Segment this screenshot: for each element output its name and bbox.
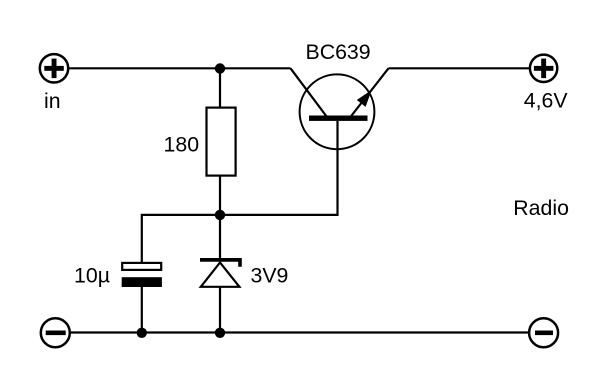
wire capacitor bottom lead xyxy=(141,286,143,333)
wire base lead: transistor base down then left to node xyxy=(219,121,338,215)
wire node to capacitor branch xyxy=(142,215,221,264)
svg-text:Radio: Radio xyxy=(513,196,569,220)
junction node base/zener xyxy=(215,210,225,220)
transistor collector diagonal xyxy=(291,68,327,116)
wire zener bottom lead xyxy=(219,287,221,333)
wire top rail left: input terminal to collector corner xyxy=(69,67,291,69)
junction node capacitor bottom xyxy=(137,328,147,338)
svg-text:BC639: BC639 xyxy=(306,40,371,64)
zener diode D 3V9 cathode bar with hook xyxy=(200,258,242,267)
terminal - bottom right xyxy=(529,318,558,347)
svg-text:in: in xyxy=(44,89,61,113)
capacitor C 10µ bottom plate xyxy=(122,277,162,287)
transistor Q1 BC639 circle xyxy=(300,74,375,149)
junction node zener bottom xyxy=(215,328,225,338)
svg-text:4,6V: 4,6V xyxy=(524,88,569,112)
wire resistor top lead xyxy=(219,68,221,108)
capacitor C 10µ top plate xyxy=(122,263,161,270)
zener diode D 3V9 triangle xyxy=(201,263,240,287)
wire top rail right: emitter corner to output terminal xyxy=(389,67,530,69)
terminal - bottom left xyxy=(41,318,70,347)
resistor R 180 body xyxy=(207,108,236,176)
transistor base bar xyxy=(309,116,368,121)
svg-text:3V9: 3V9 xyxy=(251,264,289,288)
transistor emitter diagonal xyxy=(351,68,389,116)
wire resistor bottom lead to node xyxy=(219,175,221,216)
wire zener top lead xyxy=(219,215,221,259)
svg-text:10µ: 10µ xyxy=(74,263,110,287)
svg-text:180: 180 xyxy=(164,133,200,157)
junction node top rail xyxy=(215,63,225,73)
wire bottom rail xyxy=(71,331,529,333)
terminal + input (in) xyxy=(40,54,68,82)
transistor emitter arrow xyxy=(357,90,372,107)
terminal + output (4,6V) xyxy=(530,55,557,82)
